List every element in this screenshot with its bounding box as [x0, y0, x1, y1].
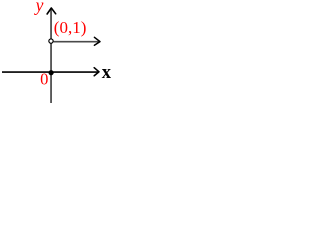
- ray arrowhead: [94, 37, 100, 45]
- svg-text:(0,1): (0,1): [54, 18, 87, 37]
- ray y=1 for x>0: [54, 41, 99, 43]
- x-axis: [2, 71, 98, 73]
- x-axis arrowhead: [94, 68, 99, 76]
- svg-text:0: 0: [40, 69, 48, 88]
- svg-text:x: x: [102, 63, 112, 83]
- origin dot: [49, 70, 54, 75]
- svg-text:y: y: [34, 0, 44, 15]
- y-axis: [50, 9, 52, 103]
- open circle at (0,1): [49, 39, 53, 43]
- y-axis arrowhead: [47, 8, 56, 14]
